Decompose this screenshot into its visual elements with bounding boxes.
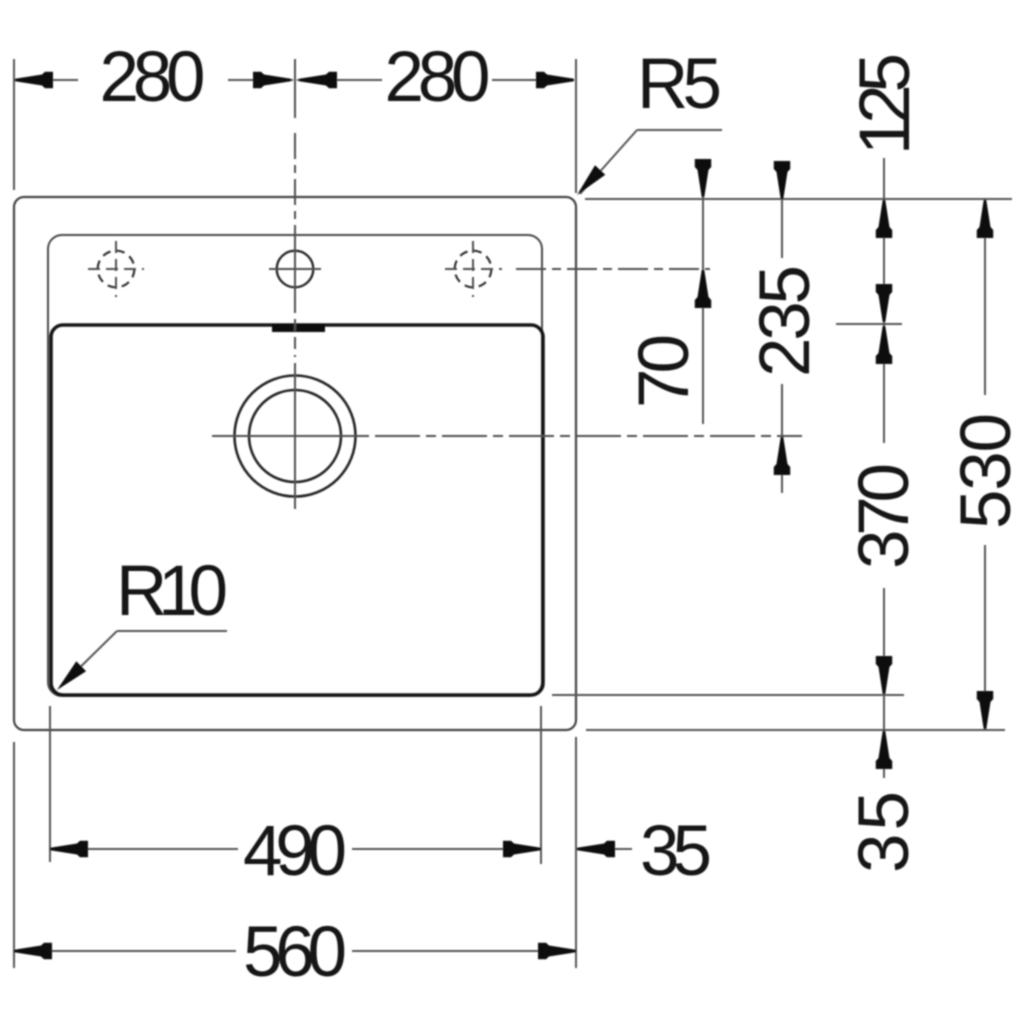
svg-text:R5: R5 xyxy=(637,45,722,124)
svg-text:490: 490 xyxy=(243,812,347,891)
svg-text:560: 560 xyxy=(243,913,347,992)
svg-text:R10: R10 xyxy=(116,552,228,631)
svg-text:280: 280 xyxy=(100,38,206,117)
svg-text:35: 35 xyxy=(640,812,712,891)
svg-text:235: 235 xyxy=(746,265,825,377)
svg-text:530: 530 xyxy=(947,413,1024,529)
svg-text:70: 70 xyxy=(625,334,704,408)
svg-text:280: 280 xyxy=(385,38,491,117)
svg-text:125: 125 xyxy=(846,53,925,155)
svg-text:370: 370 xyxy=(845,463,924,569)
